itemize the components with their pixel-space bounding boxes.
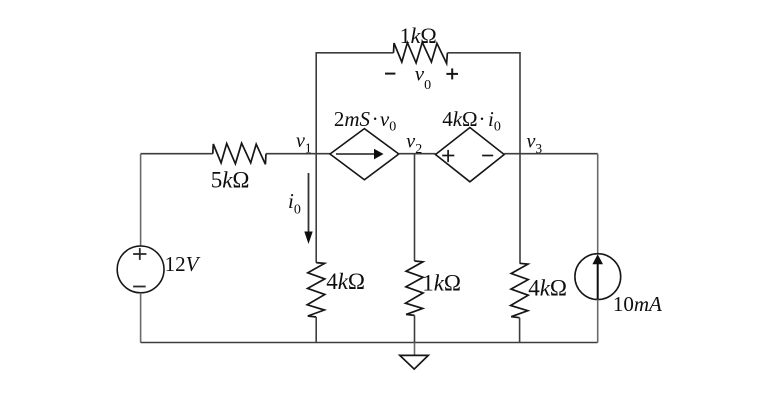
plus sign inside U2 <box>442 155 454 157</box>
wire from node v1 up to top rail <box>316 53 393 154</box>
svg-text:1kΩ: 1kΩ <box>422 271 461 296</box>
svg-text:5kΩ: 5kΩ <box>211 167 250 192</box>
arrow inside U1 <box>336 153 375 155</box>
wire branch v3 down <box>519 154 521 264</box>
wire bottom rail <box>141 342 598 344</box>
svg-text:4kΩ·i0: 4kΩ·i0 <box>442 107 501 135</box>
arrow inside I1 pointing up <box>597 262 599 299</box>
wire branch v1 down <box>315 154 317 263</box>
wire 5k resistor to dependent source <box>266 153 330 155</box>
current source I1 10mA circle <box>575 254 621 300</box>
svg-text:12V: 12V <box>165 252 201 276</box>
svg-text:4kΩ: 4kΩ <box>528 276 567 301</box>
voltage source V1 12V circle <box>117 246 164 293</box>
wire below middle 1k resistor <box>414 315 416 342</box>
ground stem <box>414 343 416 356</box>
svg-text:4kΩ: 4kΩ <box>326 269 365 294</box>
svg-text:2mS·v0: 2mS·v0 <box>334 107 396 135</box>
minus sign in V1 <box>133 286 146 288</box>
wire from 1k top resistor down to node v3 <box>447 53 520 154</box>
ground symbol <box>400 355 429 369</box>
wire right vertical down to current source <box>597 154 599 254</box>
wire below current source <box>597 299 599 342</box>
wire below right 4k resistor <box>519 318 521 343</box>
wire below voltage source <box>140 293 142 343</box>
resistor R 1k (top) <box>394 42 448 63</box>
resistor R 4k (right branch) <box>511 263 529 317</box>
svg-text:10mA: 10mA <box>613 292 662 316</box>
wire main left horizontal <box>141 153 213 155</box>
resistor R 4k (left branch) <box>307 263 325 317</box>
wire branch v2 down <box>414 154 416 261</box>
plus sign in V1 <box>133 253 146 255</box>
wire left vertical down to voltage source <box>140 154 142 246</box>
wire v2 segment <box>399 153 436 155</box>
dependent voltage source U2 (4kΩ·i0) diamond <box>436 128 505 182</box>
label plus (v0 polarity right) <box>446 73 458 75</box>
resistor R 1k (middle branch) <box>406 261 424 315</box>
wire v3 segment to right edge <box>504 153 598 155</box>
svg-text:1kΩ: 1kΩ <box>400 23 437 48</box>
minus sign inside U2 <box>482 155 493 157</box>
resistor R 5k <box>213 143 266 164</box>
current arrow i0 <box>308 173 310 233</box>
label minus (v0 polarity left) <box>385 73 395 75</box>
dependent current source U1 (2mS·v0) diamond <box>330 129 399 180</box>
wire below left 4k resistor <box>315 317 317 343</box>
